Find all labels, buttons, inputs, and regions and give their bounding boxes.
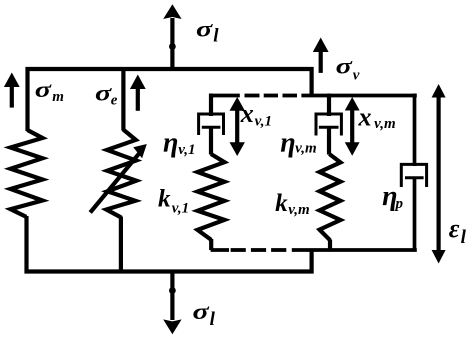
- svg-text:ε: ε: [449, 214, 460, 243]
- svg-text:v,m: v,m: [288, 202, 310, 218]
- svg-text:p: p: [394, 196, 404, 212]
- svg-text:v,m: v,m: [295, 140, 317, 156]
- svg-text:σ: σ: [196, 16, 213, 42]
- svg-text:m: m: [52, 89, 64, 105]
- svg-text:v,m: v,m: [374, 116, 396, 132]
- svg-text:e: e: [111, 93, 118, 109]
- svg-text:σ: σ: [193, 299, 210, 325]
- svg-text:l: l: [210, 309, 216, 330]
- svg-text:k: k: [158, 185, 171, 212]
- svg-text:σ: σ: [95, 80, 112, 106]
- svg-text:v,1: v,1: [178, 142, 195, 158]
- svg-text:η: η: [163, 128, 178, 159]
- svg-text:k: k: [275, 190, 288, 217]
- svg-text:σ: σ: [35, 76, 52, 102]
- svg-text:x: x: [240, 99, 254, 128]
- svg-text:x: x: [358, 103, 372, 132]
- svg-text:l: l: [213, 26, 219, 47]
- svg-text:v,1: v,1: [172, 201, 189, 217]
- svg-text:η: η: [280, 128, 295, 159]
- svg-text:l: l: [461, 227, 467, 248]
- svg-text:σ: σ: [336, 53, 353, 79]
- svg-text:v: v: [353, 68, 360, 84]
- svg-text:v,1: v,1: [255, 114, 272, 130]
